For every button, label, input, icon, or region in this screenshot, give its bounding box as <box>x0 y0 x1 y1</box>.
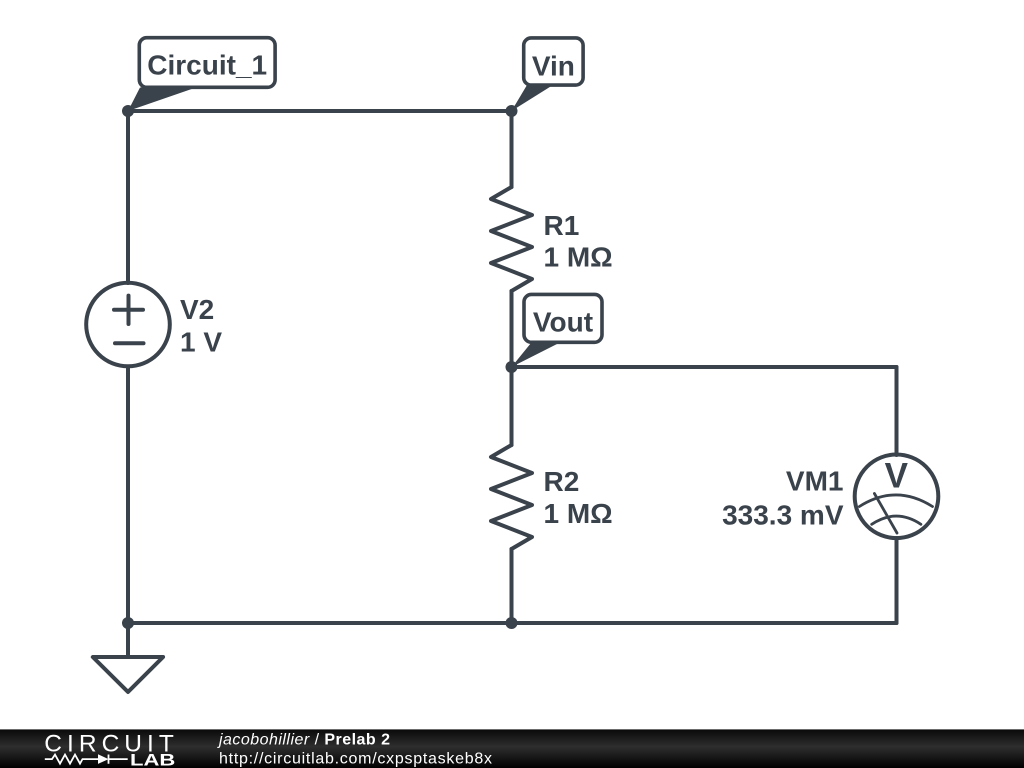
wire top horizontal <box>128 109 512 113</box>
label bubble Vout tail <box>512 343 560 367</box>
voltmeter VM1 circle <box>855 455 939 539</box>
voltage source V2 circle <box>86 283 170 367</box>
wire VM1 top <box>895 367 899 455</box>
svg-text:http://circuitlab.com/cxpsptas: http://circuitlab.com/cxpsptaskeb8x <box>219 750 492 767</box>
resistor R2 zigzag body <box>491 445 532 549</box>
footer logo resistor-diode glyph <box>45 754 128 764</box>
label bubble Circuit_1 tail <box>128 88 196 112</box>
ground triangle <box>93 657 163 692</box>
svg-text:VM1: VM1 <box>786 466 844 497</box>
node dot A top-left <box>122 105 134 117</box>
label bubble Vin box <box>524 38 583 85</box>
wire VM1 bottom <box>895 538 899 623</box>
wire left lower (V2 bottom to ground node) <box>126 367 130 624</box>
svg-text:333.3 mV: 333.3 mV <box>722 500 844 531</box>
svg-text:Circuit_1: Circuit_1 <box>147 50 267 81</box>
wire left upper (node A to V2 top) <box>126 111 130 283</box>
svg-text:V2: V2 <box>180 294 214 325</box>
wire Vout horizontal to VM1 <box>512 365 897 369</box>
svg-text:R1: R1 <box>544 210 580 241</box>
wire Vout down to R2 <box>510 367 514 445</box>
wire bottom horizontal <box>128 621 897 625</box>
wire Vin down to R1 <box>510 111 514 187</box>
resistor R1 zigzag body <box>491 187 532 291</box>
label bubble Vin tail <box>512 85 554 111</box>
node dot Vout <box>506 361 518 373</box>
svg-text:R2: R2 <box>544 466 580 497</box>
svg-text:jacobohillier / Prelab 2: jacobohillier / Prelab 2 <box>217 731 390 748</box>
ground wire stub <box>126 623 130 657</box>
svg-text:LAB: LAB <box>130 752 175 768</box>
svg-text:1 MΩ: 1 MΩ <box>544 242 613 273</box>
V2 plus sign <box>114 296 143 324</box>
svg-text:V: V <box>885 456 909 495</box>
wire R1 bottom to Vout node <box>510 291 514 367</box>
wire R2 bottom to bottom rail <box>510 549 514 623</box>
label bubble Circuit_1 box <box>139 38 275 88</box>
V2 minus sign <box>115 341 144 345</box>
voltmeter VM1 needle <box>874 494 897 534</box>
node dot bottom-left <box>122 617 134 629</box>
footer bar <box>0 729 1024 768</box>
voltmeter VM1 scale arcs <box>859 494 932 534</box>
node dot Vin <box>506 105 518 117</box>
node dot bottom R2 <box>506 617 518 629</box>
svg-text:Vin: Vin <box>532 50 575 81</box>
label bubble Vout box <box>524 294 602 342</box>
svg-text:1 V: 1 V <box>180 326 222 357</box>
svg-text:Vout: Vout <box>533 307 593 338</box>
svg-text:1 MΩ: 1 MΩ <box>544 498 613 529</box>
